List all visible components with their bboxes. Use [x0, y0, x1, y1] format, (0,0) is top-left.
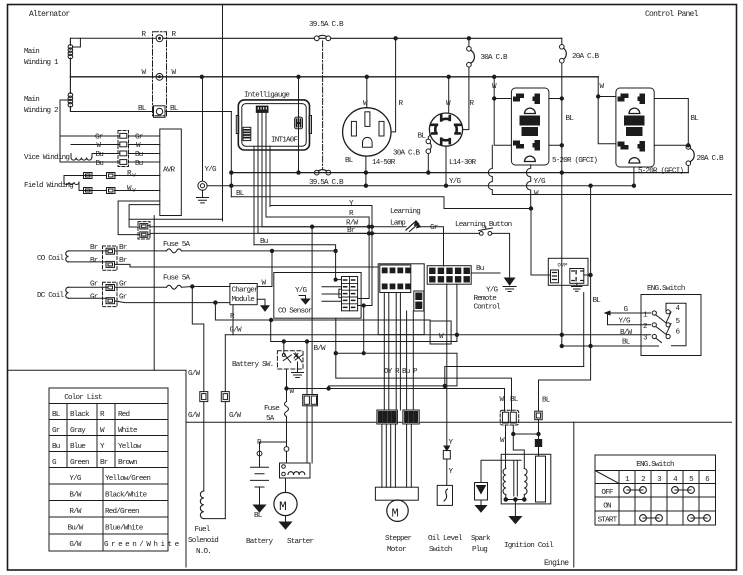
W-bus ground tap wire	[202, 77, 204, 181]
svg-text:Bu: Bu	[260, 238, 268, 246]
svg-text:BL: BL	[254, 512, 263, 520]
terminal R	[156, 35, 163, 42]
svg-text:Y/G: Y/G	[205, 166, 218, 174]
L14-30R Y/G ground wire	[445, 146, 447, 185]
svg-text:5A: 5A	[266, 415, 275, 423]
svg-text:B/W: B/W	[314, 345, 327, 353]
svg-text:4: 4	[676, 305, 681, 313]
intelligauge top connector	[256, 106, 268, 112]
battery switch ground	[292, 362, 304, 378]
svg-text:Blue: Blue	[70, 443, 86, 451]
svg-text:Motor: Motor	[387, 546, 406, 554]
pin circles right	[666, 310, 670, 314]
svg-text:Bu: Bu	[135, 160, 143, 168]
svg-text:Black: Black	[70, 411, 90, 419]
svg-text:Br: Br	[119, 257, 127, 265]
wires into strip left	[60, 135, 120, 137]
svg-text:Yellow/Green: Yellow/Green	[105, 475, 150, 483]
svg-text:Black/White: Black/White	[105, 492, 148, 500]
Br wire from connector to right	[148, 233, 375, 234]
svg-text:BL: BL	[170, 105, 179, 113]
svg-text:Y/G: Y/G	[449, 178, 462, 186]
svg-text:Fuse: Fuse	[264, 405, 280, 413]
dual plug connector	[303, 395, 318, 406]
Bu line	[254, 245, 342, 280]
svg-text:Blue/White: Blue/White	[105, 525, 144, 533]
svg-text:W: W	[127, 185, 132, 193]
pin circles left	[652, 311, 656, 315]
intelligauge output wires	[254, 112, 270, 244]
svg-text:W: W	[172, 69, 177, 77]
svg-text:W: W	[136, 142, 141, 150]
learning ground symbol	[505, 278, 515, 285]
svg-text:G/W: G/W	[188, 412, 201, 420]
svg-text:G/W: G/W	[188, 370, 201, 378]
R bus wire	[163, 37, 562, 39]
svg-text:W: W	[500, 437, 505, 445]
stepper body	[375, 487, 418, 500]
svg-text:W: W	[446, 100, 451, 108]
svg-text:B/W: B/W	[620, 329, 633, 337]
R wire from charger low junction	[215, 303, 430, 320]
spark lead inside box	[501, 459, 521, 461]
4-way connector strip dashed	[118, 131, 129, 167]
BL drop from terminal line	[230, 112, 232, 197]
primary coil	[503, 469, 506, 495]
OVP ground	[572, 283, 583, 291]
ENG.Switch truth table	[595, 455, 716, 525]
sensor Y/G ground	[299, 296, 306, 300]
ENG switch truth table START contacts 2-3 and 5-6	[640, 515, 647, 522]
OVP kill tap	[445, 367, 584, 386]
svg-text:Bu: Bu	[96, 160, 104, 168]
fuse 5A CO	[167, 249, 182, 253]
fuse 5A DC	[167, 285, 182, 289]
B/W drop from remote connector to ENG switch line	[456, 284, 458, 341]
GFCI 1 W feed	[494, 77, 511, 146]
svg-text:B/W: B/W	[69, 492, 82, 500]
battery R wire to starter terminal	[260, 442, 287, 456]
L14-30R R wire with 30A C.B	[463, 38, 469, 129]
main winding 2 coil	[69, 106, 71, 111]
svg-text:W: W	[492, 83, 497, 91]
battery switch W output	[286, 369, 288, 402]
svg-text:Green: Green	[70, 459, 89, 467]
svg-text:DC Coil: DC Coil	[37, 292, 65, 300]
starter motor	[285, 478, 287, 493]
39.5A breaker on BL bus	[314, 170, 319, 175]
svg-text:Y/G: Y/G	[486, 287, 499, 295]
svg-text:R: R	[395, 368, 400, 376]
Y/G wire to pin 2	[608, 313, 651, 325]
CO coil lower wire to driver module	[115, 264, 379, 267]
svg-text:Winding 2: Winding 2	[24, 107, 59, 115]
svg-text:START: START	[598, 517, 618, 525]
G wire to pin 1	[606, 312, 651, 314]
W sense vertical through right side	[298, 77, 300, 173]
svg-text:M: M	[392, 507, 399, 521]
svg-text:CO Coil: CO Coil	[37, 255, 65, 263]
svg-text:Bu/W: Bu/W	[67, 525, 83, 533]
svg-text:Field Winding: Field Winding	[24, 182, 73, 190]
svg-text:Gr: Gr	[119, 281, 127, 289]
svg-text:1: 1	[625, 476, 630, 484]
svg-text:Gr: Gr	[95, 134, 103, 142]
inline connector arrow	[443, 451, 450, 460]
DC lower wire to charger	[115, 301, 230, 303]
field winding coil	[64, 176, 79, 191]
sensor connector 2x5	[342, 277, 358, 311]
svg-text:Solenoid: Solenoid	[188, 537, 218, 545]
G/W wire under charger	[232, 305, 234, 335]
svg-text:Brown: Brown	[118, 459, 137, 467]
svg-text:Y/G: Y/G	[69, 475, 82, 483]
labels winding area	[24, 21, 344, 190]
svg-text:Alternator: Alternator	[29, 10, 70, 19]
BL bus drop to kill line	[561, 173, 563, 346]
intelligauge left connector	[243, 127, 251, 140]
boundary connector blocks	[377, 410, 398, 424]
svg-text:R: R	[100, 411, 105, 419]
GFCI 2 hot pins and 20A C.B to BL bus	[654, 99, 688, 173]
svg-text:W: W	[500, 396, 505, 404]
svg-text:2: 2	[643, 323, 648, 331]
CO wires right	[115, 250, 167, 252]
W bus wire	[70, 76, 598, 78]
svg-text:G: G	[52, 459, 57, 467]
small 2-pin connector	[414, 291, 424, 311]
svg-text:Bu: Bu	[135, 151, 143, 159]
svg-text:Winding 1: Winding 1	[24, 59, 59, 67]
svg-text:Br: Br	[347, 227, 355, 235]
svg-text:Y/G: Y/G	[534, 178, 547, 186]
svg-text:BL: BL	[345, 157, 354, 165]
W return line	[488, 145, 731, 194]
BL plug	[535, 411, 543, 420]
OVP lower tap to kill loop	[583, 293, 585, 367]
svg-text:G/W: G/W	[229, 412, 242, 420]
secondary coil	[524, 469, 527, 495]
svg-text:Engine: Engine	[544, 559, 569, 568]
svg-text:4: 4	[673, 476, 678, 484]
svg-text:Red/Green: Red/Green	[105, 508, 139, 516]
svg-text:CO Sensor: CO Sensor	[278, 308, 312, 316]
svg-text:OY: OY	[384, 368, 393, 376]
svg-text:Starter: Starter	[287, 538, 314, 546]
learning lamp symbol	[406, 221, 416, 230]
svg-text:N.O.: N.O.	[196, 548, 211, 556]
connector tap to kill loop	[363, 306, 365, 354]
svg-text:Switch: Switch	[429, 546, 452, 554]
svg-text:Gr: Gr	[52, 427, 60, 435]
battery switch box	[277, 351, 303, 369]
stepper driver connector	[380, 265, 411, 293]
39.5A breaker on R bus	[314, 36, 319, 41]
svg-text:30A C.B: 30A C.B	[481, 54, 509, 62]
GFCI 2 W feed from W bus end	[598, 77, 616, 144]
svg-text:OFF: OFF	[601, 489, 614, 497]
svg-text:ENG.Switch: ENG.Switch	[636, 461, 674, 469]
oil switch box	[437, 485, 452, 505]
main winding 1 coil	[69, 38, 71, 93]
svg-text:Bu: Bu	[96, 151, 104, 159]
small aux box	[430, 321, 451, 344]
svg-text:BL: BL	[691, 115, 700, 123]
svg-text:3: 3	[657, 476, 662, 484]
DC wires right	[115, 286, 167, 288]
svg-text:Br: Br	[90, 257, 98, 265]
svg-text:Br: Br	[100, 459, 108, 467]
B/W wire to pin 3	[457, 334, 651, 336]
svg-text:White: White	[118, 427, 138, 435]
svg-text:Gr: Gr	[90, 294, 98, 302]
AVR box	[160, 129, 182, 216]
intelligauge outer case	[238, 100, 309, 150]
svg-text:Stepper: Stepper	[385, 535, 412, 543]
CO coil connector	[103, 246, 118, 270]
ground terminal double circle	[198, 181, 207, 190]
svg-text:5-20R (GFCI): 5-20R (GFCI)	[552, 157, 597, 165]
engine region boundary	[186, 421, 732, 423]
B/W line to learning lamp	[262, 226, 406, 228]
svg-text:Gr: Gr	[119, 294, 127, 302]
charger W output	[257, 251, 272, 287]
BL lower wire staircase to OVP	[231, 197, 550, 275]
solenoid coil	[200, 491, 203, 519]
svg-text:W: W	[100, 427, 105, 435]
svg-text:Vice Winding: Vice Winding	[24, 154, 69, 162]
svg-text:6: 6	[676, 329, 681, 337]
svg-text:Y: Y	[100, 443, 105, 451]
svg-text:Gr: Gr	[430, 224, 438, 232]
svg-text:L14-30R: L14-30R	[449, 159, 477, 167]
svg-text:Ignition Coil: Ignition Coil	[504, 542, 554, 550]
learning button symbol	[479, 232, 483, 236]
starter ground	[285, 516, 287, 522]
svg-text:5-20R (GFCI): 5-20R (GFCI)	[638, 168, 683, 176]
svg-text:Y/G: Y/G	[619, 318, 632, 326]
CO coil	[66, 251, 69, 262]
svg-text:Yellow: Yellow	[118, 443, 142, 451]
svg-text:R: R	[127, 170, 132, 178]
svg-text:5: 5	[676, 318, 681, 326]
svg-text:INT1A0F: INT1A0F	[271, 137, 299, 145]
svg-text:BL: BL	[138, 105, 147, 113]
svg-text:G/W: G/W	[69, 541, 82, 549]
14-50R W wire	[366, 77, 368, 108]
ENG switch truth table OFF contacts 1-2 and 4-5	[624, 487, 711, 522]
20A C.B top right	[561, 38, 563, 172]
svg-text:Fuse 5A: Fuse 5A	[163, 275, 191, 283]
B/W wire down to relay	[311, 227, 313, 395]
svg-text:Main: Main	[24, 48, 39, 56]
terminal BL box	[154, 106, 166, 118]
R line	[266, 217, 369, 299]
svg-text:Spark: Spark	[471, 535, 491, 543]
terminal strip dash-dot box	[153, 32, 167, 116]
svg-text:Oil Level: Oil Level	[428, 535, 463, 543]
svg-text:BL: BL	[622, 339, 631, 347]
Color List table	[49, 388, 168, 551]
svg-text:20A C.B: 20A C.B	[572, 53, 600, 61]
svg-text:3: 3	[643, 335, 648, 343]
GFCI 1 ground drop with hops to OVP	[526, 165, 530, 209]
svg-text:BL: BL	[593, 297, 602, 305]
svg-text:Y: Y	[449, 439, 454, 447]
svg-text:Gray: Gray	[70, 427, 86, 435]
svg-text:OVP: OVP	[558, 262, 568, 269]
stepper wires below	[382, 424, 396, 487]
svg-text:Main: Main	[24, 96, 39, 104]
svg-text:W: W	[142, 69, 147, 77]
svg-text:W: W	[290, 388, 295, 396]
fuse 5A starter	[285, 402, 289, 417]
svg-text:W: W	[600, 83, 605, 91]
svg-text:Battery SW.: Battery SW.	[232, 361, 273, 369]
vice winding coil	[71, 154, 92, 161]
svg-text:Control Panel: Control Panel	[645, 10, 699, 19]
svg-text:Y: Y	[349, 200, 354, 208]
strip to AVR wires	[129, 136, 160, 162]
svg-text:Red: Red	[118, 411, 130, 419]
ENG switch inner box	[666, 303, 686, 346]
Br line to learning button	[258, 232, 480, 234]
svg-text:Gr: Gr	[135, 134, 143, 142]
svg-text:Bu: Bu	[476, 265, 484, 273]
OVP output to BL vertical	[584, 274, 591, 276]
ignition coil box	[501, 454, 551, 504]
svg-text:BL: BL	[510, 396, 519, 404]
switch linkages	[656, 315, 666, 343]
svg-text:Br: Br	[90, 244, 98, 252]
svg-text:Br: Br	[119, 244, 127, 252]
stepper wires down from driver connector	[384, 293, 400, 411]
14-50R BL/ground wire	[365, 156, 367, 186]
inline connector below AVR	[138, 222, 150, 239]
DC coil connector	[103, 282, 118, 306]
Bu stub from remote connector	[471, 272, 500, 274]
L14-30R W wire	[448, 77, 450, 113]
svg-text:14-50R: 14-50R	[372, 159, 396, 167]
charger module box	[230, 284, 257, 305]
driver module box	[378, 264, 424, 335]
core	[514, 461, 518, 496]
svg-text:ENG.Switch: ENG.Switch	[647, 285, 685, 293]
CO sensor kill output	[336, 318, 512, 411]
field winding wires with inline plugs	[64, 175, 160, 177]
starter relay	[280, 463, 311, 478]
svg-text:20A C.B: 20A C.B	[697, 155, 725, 163]
BL bus	[231, 172, 688, 174]
BL wire to switch common	[562, 345, 659, 347]
GFCI outlet 2	[616, 88, 654, 167]
svg-text:2: 2	[641, 476, 646, 484]
G/W wire 2 with plug	[224, 335, 226, 392]
svg-text:Charger: Charger	[232, 287, 259, 295]
ground symbol	[197, 190, 209, 203]
svg-text:Y: Y	[449, 468, 454, 476]
svg-text:Color List: Color List	[64, 394, 102, 402]
svg-text:BL: BL	[566, 115, 575, 123]
R/W wire from connector to right	[148, 225, 369, 228]
svg-text:ON: ON	[603, 503, 611, 511]
G/W wire 1 with plug	[200, 392, 208, 402]
svg-text:Intelligauge: Intelligauge	[244, 92, 290, 100]
svg-text:Battery: Battery	[246, 538, 274, 546]
svg-text:R/W: R/W	[69, 508, 82, 516]
small inline plug on core wire	[535, 440, 541, 447]
DC coil	[66, 287, 69, 298]
kill loop rectangle	[329, 353, 457, 388]
svg-text:BL: BL	[418, 133, 427, 141]
svg-text:Fuse 5A: Fuse 5A	[163, 241, 191, 249]
starter terminal circle	[284, 447, 289, 452]
intelligauge right connector	[295, 117, 303, 129]
G/W drop from fuse junction to solenoid	[192, 287, 204, 392]
svg-text:Lamp: Lamp	[390, 220, 406, 228]
battery ground	[254, 505, 266, 512]
Y/G line	[207, 185, 634, 187]
svg-text:Module: Module	[232, 296, 256, 304]
GFCI 2 ground drop to Y/G	[633, 167, 635, 186]
svg-text:30A C.B: 30A C.B	[393, 150, 421, 158]
svg-text:Y/G: Y/G	[295, 287, 308, 295]
remote control connector	[427, 266, 471, 285]
svg-text:Plug: Plug	[472, 546, 487, 554]
Y line	[270, 206, 372, 306]
svg-text:BL: BL	[236, 190, 245, 198]
svg-text:BL: BL	[542, 397, 551, 405]
14-50R R wire	[391, 38, 396, 132]
svg-text:Learning Button: Learning Button	[455, 221, 512, 229]
svg-text:39.5A C.B: 39.5A C.B	[309, 21, 344, 29]
BL vertical wire	[539, 186, 591, 411]
svg-text:Gr: Gr	[90, 281, 98, 289]
relay feed from battery line	[306, 342, 308, 395]
W/BL plug pair	[500, 410, 519, 425]
svg-text:G/W: G/W	[230, 327, 243, 335]
W kill line	[287, 389, 505, 412]
svg-text:Control: Control	[474, 304, 502, 312]
svg-text:W: W	[97, 142, 102, 150]
svg-text:AVR: AVR	[163, 167, 176, 175]
svg-text:Remote: Remote	[474, 295, 498, 303]
coil commons and ground	[506, 499, 525, 501]
sensor row wires inside box	[322, 287, 342, 301]
svg-text:6: 6	[705, 476, 710, 484]
ENG switch outer box	[641, 295, 701, 356]
svg-text:BL: BL	[52, 411, 61, 419]
button to ground	[492, 233, 510, 278]
svg-text:R: R	[470, 100, 475, 108]
battery cells	[251, 456, 269, 505]
svg-text:Green/White: Green/White	[104, 541, 182, 549]
battery feed line	[271, 320, 457, 342]
GFCI 1 hot pins from breaker drop	[549, 99, 562, 146]
charger ground	[257, 299, 265, 305]
alternator region boundary	[222, 5, 224, 222]
svg-text:M: M	[279, 499, 287, 514]
GFCI outlet 1	[511, 88, 549, 165]
svg-text:P: P	[413, 368, 418, 376]
terminal W	[156, 73, 163, 80]
breaker gang dash-dot link	[322, 41, 324, 169]
L14-30R BL wire with 30A C.B	[428, 134, 431, 173]
svg-text:W: W	[439, 333, 444, 341]
BL wire from terminal to drop	[165, 111, 231, 113]
svg-text:Bu: Bu	[52, 443, 60, 451]
svg-text:Learning: Learning	[390, 208, 420, 216]
